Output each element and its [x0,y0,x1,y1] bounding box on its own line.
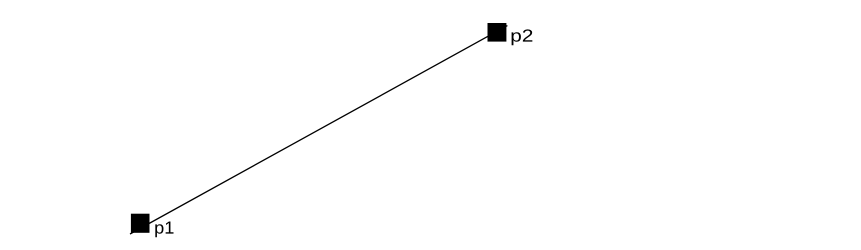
node p2 label [512,29,533,45]
wire line segment p1-p2 [130,26,507,234]
node p2 square marker [488,23,507,42]
node p1 square marker [131,214,150,233]
node p1 label [155,222,173,238]
